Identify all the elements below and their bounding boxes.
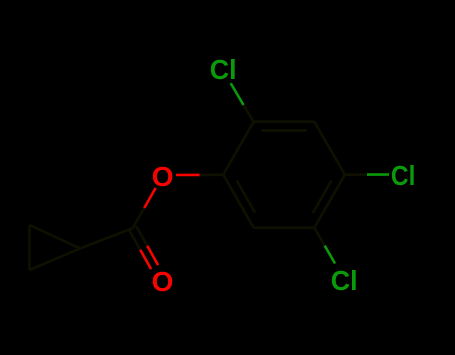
double bond C7=O line A, oxygen half — [140, 250, 151, 269]
double bond C7=O line A, carbon half — [129, 230, 140, 250]
bond C2-Cl(top), chlorine half — [231, 83, 244, 105]
cyclopropane bond C9-C10 — [28, 225, 31, 270]
bond O(ester)-C7 carbonyl, carbon half — [133, 208, 145, 228]
double bond C7=O line B, carbon half — [136, 226, 147, 246]
benzene ring bond C5-C6 — [254, 226, 315, 229]
benzene ring bond C2-C3 — [254, 120, 315, 123]
benzene ring bond C6-C1 — [223, 175, 253, 228]
benzene ring bond C1-C2 — [223, 122, 253, 175]
bond C5-Cl(bottom), chlorine half — [325, 246, 335, 264]
aromatic inner double bond C4=C5 — [313, 181, 332, 213]
benzene ring bond C4-C5 — [314, 175, 345, 228]
bond C4-Cl(right), chlorine half — [367, 173, 389, 176]
svg-text:Cl: Cl — [391, 160, 416, 191]
bond C5-Cl(bottom), carbon half — [314, 228, 324, 246]
aromatic inner double bond C2=C3 — [262, 129, 307, 132]
svg-text:O: O — [152, 161, 174, 192]
bond C4-Cl(right), carbon half — [345, 173, 367, 176]
svg-text:Cl: Cl — [331, 265, 358, 296]
cyclopropane bond C8-C9 — [30, 225, 81, 248]
bond C7-C8 (carbonyl to cyclopropyl CH) — [80, 228, 133, 248]
double bond C7=O line B, oxygen half — [147, 246, 158, 265]
bond O(ester)-C1, carbon half — [200, 173, 224, 176]
bond O(ester)-C1, oxygen half — [176, 174, 200, 177]
bond C2-Cl(top), carbon half — [244, 105, 254, 122]
bond O(ester)-C7 carbonyl, oxygen half — [144, 188, 156, 208]
svg-text:Cl: Cl — [210, 54, 237, 85]
svg-text:O: O — [152, 266, 174, 297]
benzene ring bond C3-C4 — [314, 122, 345, 175]
cyclopropane bond C8-C10 — [30, 248, 81, 270]
aromatic inner double bond C6=C1 — [237, 181, 255, 213]
